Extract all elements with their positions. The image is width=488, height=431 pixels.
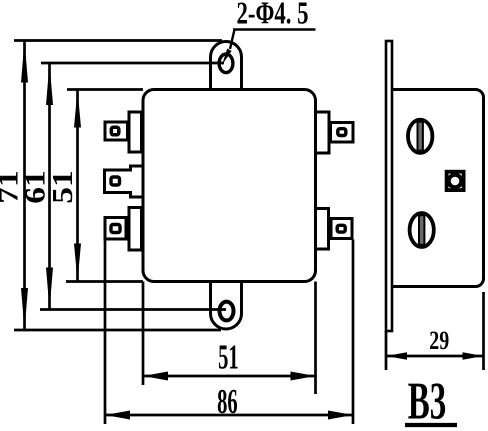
svg-text:51: 51: [48, 170, 79, 204]
svg-text:B3: B3: [408, 373, 447, 431]
svg-text:29: 29: [429, 326, 449, 355]
svg-text:86: 86: [217, 382, 238, 421]
svg-text:51: 51: [218, 338, 239, 377]
svg-text:2-Φ4. 5: 2-Φ4. 5: [237, 0, 309, 31]
svg-text:61: 61: [21, 170, 52, 204]
